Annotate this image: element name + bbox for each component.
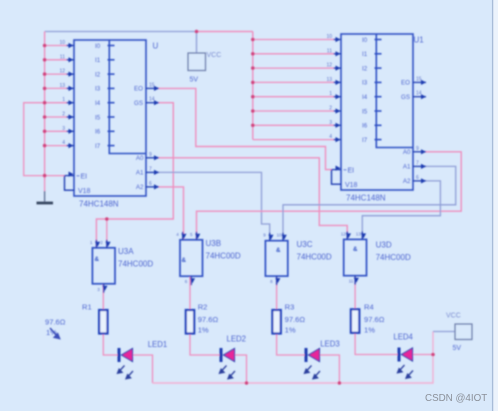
- svg-text:7: 7: [149, 166, 152, 172]
- svg-text:2: 2: [100, 240, 103, 245]
- svg-text:4: 4: [176, 232, 179, 237]
- svg-text:R3: R3: [285, 303, 295, 312]
- svg-text:I1: I1: [362, 51, 368, 58]
- wire U1 A2 to U3D: [362, 181, 440, 240]
- node U3A input tie: [105, 217, 109, 221]
- svg-text:3: 3: [97, 287, 100, 292]
- wire bus to U I2: [45, 73, 67, 75]
- svg-text:EO: EO: [401, 80, 410, 87]
- svg-text:V18: V18: [345, 182, 358, 189]
- resistor R2: [186, 310, 194, 334]
- node VCC tap: [195, 30, 199, 34]
- node bus EI/gnd: [43, 174, 47, 178]
- LED LED1: [118, 348, 134, 379]
- NAND gate U3B: [180, 232, 203, 285]
- wire U EO to U1 EI: [159, 88, 332, 169]
- node bus I4: [43, 101, 47, 105]
- svg-text:R2: R2: [198, 303, 208, 312]
- NAND gate U3A: [92, 240, 115, 293]
- wire dist to U1 I4: [253, 96, 334, 98]
- svg-text:14: 14: [416, 91, 422, 97]
- svg-text:A1: A1: [403, 164, 411, 171]
- svg-text:1: 1: [329, 91, 332, 97]
- svg-text:VCC: VCC: [446, 313, 461, 320]
- svg-text:11: 11: [327, 48, 332, 54]
- svg-text:6: 6: [149, 181, 152, 187]
- NAND gate U3D: [344, 231, 367, 284]
- LED LED3: [305, 348, 321, 379]
- wire U A0 to U3D: [159, 158, 347, 240]
- node LED3 rail: [338, 381, 342, 385]
- svg-text:I4: I4: [362, 94, 368, 101]
- svg-text:&: &: [182, 257, 187, 264]
- svg-text:U3C: U3C: [297, 240, 313, 249]
- svg-text:13: 13: [326, 77, 332, 83]
- svg-text:GS: GS: [401, 94, 410, 101]
- node dist I2: [251, 66, 255, 70]
- wire VCC tap: [196, 32, 198, 54]
- resistor R3: [272, 310, 280, 334]
- svg-text:R1: R1: [82, 303, 92, 312]
- wire bus to U I6: [45, 130, 67, 132]
- resistor R1: [99, 310, 107, 334]
- svg-text:V18: V18: [78, 188, 91, 195]
- svg-text:11: 11: [349, 279, 354, 284]
- svg-text:I3: I3: [362, 80, 368, 87]
- svg-text:I4: I4: [95, 100, 101, 107]
- svg-text:1: 1: [62, 97, 65, 103]
- svg-text:I6: I6: [362, 123, 368, 130]
- svg-text:1: 1: [90, 240, 93, 245]
- svg-text:1%: 1%: [198, 326, 209, 335]
- svg-text:15: 15: [149, 82, 155, 88]
- node bus I5: [43, 115, 47, 119]
- wire R1 to LED1: [103, 334, 117, 356]
- svg-text:EO: EO: [134, 86, 143, 93]
- wire dist to U1 I3: [253, 81, 334, 83]
- svg-text:74HC148N: 74HC148N: [79, 200, 119, 209]
- U1 EI pin with loop: [332, 169, 342, 171]
- node dist I5: [251, 109, 255, 113]
- svg-text:8: 8: [270, 279, 273, 284]
- svg-text:EI: EI: [348, 168, 355, 175]
- U1 output pin stubs: [413, 82, 426, 180]
- wire left input bus: [44, 32, 46, 180]
- wire U GS to U3A: [96, 103, 173, 248]
- svg-text:U3B: U3B: [206, 239, 222, 248]
- svg-text:I2: I2: [95, 71, 101, 78]
- svg-text:LED4: LED4: [393, 333, 413, 342]
- U EI pin with loop: [65, 175, 75, 177]
- svg-text:74HC00D: 74HC00D: [118, 260, 153, 269]
- U1 input pin stubs I0-I7: [334, 40, 342, 140]
- svg-text:LED3: LED3: [320, 340, 340, 349]
- wire bus to U I1: [45, 59, 67, 61]
- page border: [493, 0, 498, 411]
- svg-text:5V: 5V: [453, 345, 462, 352]
- svg-text:15: 15: [416, 76, 422, 82]
- wire bus loop to U EI: [24, 103, 65, 176]
- NAND gate U3C: [265, 233, 287, 285]
- svg-text:U3D: U3D: [376, 241, 392, 250]
- svg-text:97.6Ω: 97.6Ω: [364, 315, 385, 324]
- svg-text:I7: I7: [95, 143, 101, 150]
- wire to VCC2: [433, 331, 455, 333]
- svg-text:12: 12: [59, 69, 65, 75]
- wire U3A second input tap: [106, 219, 108, 248]
- node bus I2: [43, 72, 47, 76]
- svg-text:10: 10: [59, 40, 65, 46]
- wire top rail right: [197, 31, 253, 33]
- svg-text:A0: A0: [136, 155, 144, 162]
- wire dist to U1 I7: [253, 139, 334, 141]
- svg-text:14: 14: [149, 97, 155, 103]
- wire right input distribution: [252, 32, 254, 140]
- U1 pin name labels: [344, 37, 412, 189]
- svg-text:9: 9: [149, 152, 152, 158]
- svg-text:A1: A1: [136, 170, 144, 177]
- wire LED4 right: [412, 354, 434, 356]
- svg-text:I0: I0: [362, 37, 368, 44]
- wire U A1 to U3C: [159, 172, 270, 240]
- svg-text:6: 6: [416, 175, 419, 181]
- svg-text:5: 5: [190, 232, 193, 237]
- wire bus to U I7: [45, 145, 67, 147]
- svg-text:97.6Ω: 97.6Ω: [198, 315, 219, 324]
- svg-text:&: &: [276, 247, 281, 254]
- node LED4 rail: [431, 353, 435, 357]
- wire LED2 down: [234, 355, 247, 383]
- wire bus to U I0: [45, 45, 67, 47]
- svg-text:A2: A2: [136, 184, 144, 191]
- svg-text:4: 4: [62, 140, 65, 146]
- node dist I6: [251, 124, 255, 128]
- ground: [44, 176, 46, 191]
- svg-text:2: 2: [62, 112, 65, 118]
- svg-text:I2: I2: [362, 65, 368, 72]
- svg-text:I1: I1: [95, 57, 101, 64]
- wire U1 A0 to U3B: [197, 152, 462, 240]
- wire U A2 to U3B: [159, 187, 184, 240]
- svg-text:4: 4: [329, 134, 332, 140]
- svg-text:I5: I5: [362, 108, 368, 115]
- svg-text:5V: 5V: [190, 77, 199, 84]
- svg-text:LED2: LED2: [227, 335, 247, 344]
- wire dist to U1 I0: [253, 39, 334, 41]
- svg-text:10: 10: [277, 233, 283, 238]
- node bus I3: [43, 87, 47, 91]
- wire bus to U I3: [45, 87, 67, 89]
- node bus I0: [43, 44, 47, 48]
- svg-text:3: 3: [329, 120, 332, 126]
- svg-text:13: 13: [356, 231, 362, 236]
- svg-text:I3: I3: [95, 86, 101, 93]
- wire dist to U1 I6: [253, 124, 334, 126]
- svg-text:I0: I0: [95, 43, 101, 50]
- svg-text:I5: I5: [95, 114, 101, 121]
- svg-text:EI: EI: [81, 174, 88, 181]
- node bus I1: [43, 58, 47, 62]
- node bus I6: [43, 130, 47, 134]
- svg-text:I7: I7: [362, 137, 368, 144]
- resistor R4: [351, 309, 359, 333]
- LED LED2: [220, 348, 236, 379]
- svg-text:U1: U1: [414, 35, 425, 44]
- wire bus to U I5: [45, 116, 67, 118]
- wire R2 to LED2: [190, 334, 220, 356]
- svg-text:GS: GS: [134, 100, 143, 107]
- wire dist to U1 I5: [253, 110, 334, 112]
- svg-text:2: 2: [329, 106, 332, 112]
- svg-text:9: 9: [263, 233, 266, 238]
- node LED2 rail: [245, 381, 249, 385]
- svg-text:A2: A2: [403, 178, 411, 185]
- wire bottom rail: [153, 332, 434, 384]
- svg-text:11: 11: [60, 54, 65, 60]
- svg-text:3: 3: [62, 126, 65, 132]
- LED LED4: [398, 348, 414, 379]
- svg-text:1%: 1%: [364, 326, 375, 335]
- node dist I0: [251, 38, 255, 42]
- svg-text:97.6Ω: 97.6Ω: [45, 318, 66, 327]
- svg-text:9: 9: [416, 146, 419, 152]
- svg-text:74HC00D: 74HC00D: [206, 252, 241, 261]
- wire U3D out to R4: [354, 276, 356, 310]
- wire top rail left: [45, 31, 197, 33]
- 74HC148N encoder U1 body: [341, 34, 413, 190]
- wire U3A out to R1: [102, 284, 104, 310]
- power VCC 5V top: [188, 52, 221, 84]
- wire U1 A1 to U3C: [283, 166, 456, 240]
- U pin name labels: [77, 43, 145, 195]
- 74HC148N encoder U body: [74, 40, 146, 196]
- svg-text:&: &: [95, 256, 100, 263]
- stray cursor arrow: [50, 328, 60, 339]
- svg-text:74HC00D: 74HC00D: [297, 253, 332, 262]
- wire dist to U1 I2: [253, 67, 334, 69]
- U input pin stubs I0-I7: [67, 46, 75, 146]
- svg-text:74HC148N: 74HC148N: [346, 194, 386, 203]
- svg-text:13: 13: [59, 83, 65, 89]
- U output pin stubs: [146, 88, 159, 186]
- wire U3B out to R2: [189, 276, 191, 310]
- svg-text:10: 10: [326, 34, 332, 40]
- node bus I7: [43, 144, 47, 148]
- wire U3C out to R3: [276, 276, 278, 310]
- svg-text:1%: 1%: [285, 326, 296, 335]
- svg-text:74HC00D: 74HC00D: [376, 253, 411, 262]
- svg-text:CSDN @4IOT: CSDN @4IOT: [425, 393, 487, 404]
- wire bus to U I4: [45, 102, 67, 104]
- node dist I3: [251, 81, 255, 85]
- wire dist to U1 I1: [253, 53, 334, 55]
- svg-text:12: 12: [341, 231, 347, 236]
- wire R3 to LED3: [277, 334, 305, 356]
- node dist I1: [251, 52, 255, 56]
- svg-text:7: 7: [416, 160, 419, 166]
- svg-text:LED1: LED1: [148, 340, 168, 349]
- wire LED3 down: [319, 355, 340, 383]
- svg-text:A0: A0: [403, 149, 411, 156]
- svg-text:&: &: [353, 246, 358, 253]
- svg-text:97.6Ω: 97.6Ω: [285, 315, 306, 324]
- svg-text:U: U: [153, 41, 159, 50]
- node dist I4: [251, 95, 255, 99]
- svg-text:6: 6: [185, 279, 188, 284]
- wire R4 to LED4: [355, 333, 397, 355]
- wire LED1 down: [132, 355, 153, 383]
- power VCC 5V bottom-right: [446, 313, 472, 353]
- svg-text:I6: I6: [95, 129, 101, 136]
- svg-text:U3A: U3A: [118, 247, 134, 256]
- svg-text:VCC: VCC: [207, 52, 222, 59]
- svg-text:12: 12: [326, 63, 332, 69]
- svg-text:R4: R4: [364, 303, 374, 312]
